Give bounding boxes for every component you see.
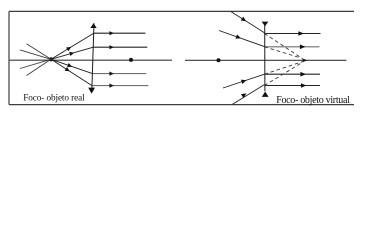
arrowhead on exit of ray 3 (through F, shallow from lower-left)	[109, 45, 113, 49]
wire ray 3 (through F, shallow from lower-left) diverging segment to lens	[51, 47, 93, 59]
arrowhead on incoming ray 4 (steep, from bottom border)	[241, 93, 247, 98]
wire incoming ray 2 (shallow upper)	[219, 31, 264, 47]
arrowhead on exit ray 4	[301, 83, 307, 88]
wire virtual ray 3 (dashed) to F	[264, 62, 302, 75]
wire exit ray 3 (parallel to axis, right diagram)	[264, 73, 320, 75]
wire incoming ray 1 (steep, from top border)	[231, 12, 264, 33]
focal point F' dot on axis (left diagram)	[129, 58, 133, 62]
lens L2 top arrowhead (pointing down/inward)	[262, 22, 269, 27]
point dot on axis (right diagram)	[217, 58, 221, 62]
wire incoming ray 4 (steep, from bottom border)	[233, 85, 265, 105]
svg-text:Foco- objeto real: Foco- objeto real	[23, 92, 85, 102]
wire ray 3 (through F, shallow from lower-left) exit segment (parallel to axis)	[93, 46, 147, 48]
arrowhead on exit of ray 4 (through F, steep from lower-left)	[109, 31, 113, 35]
lens L2 bottom arrowhead (pointing up/inward)	[262, 92, 269, 97]
arrowhead on exit ray 1	[298, 31, 304, 36]
lens L1 bottom arrowhead (down)	[88, 88, 95, 94]
wire ray 2 (through F, shallow from upper-left) diverging segment to lens	[51, 59, 92, 73]
wire ray 1 (through F, steep from upper-left) exit segment (parallel to axis)	[92, 85, 148, 87]
lens L1 top arrowhead (up)	[90, 23, 96, 28]
optical axis (right diagram)	[185, 59, 347, 61]
wire ray 2 (through F, shallow from upper-left) incoming segment	[20, 50, 51, 59]
arrowhead on incoming ray 2 (shallow upper)	[236, 35, 242, 39]
arrowhead on ray 3 (through F, shallow from lower-left)	[69, 52, 74, 56]
wire ray 4 (through F, steep from lower-left) diverging segment to lens	[51, 33, 94, 59]
wire virtual ray 1 (dashed) to F	[264, 34, 302, 59]
arrowhead on exit of ray 2 (through F, shallow from upper-left)	[109, 72, 113, 76]
arrowhead on exit of ray 1 (through F, steep from upper-left)	[109, 84, 113, 88]
focal point F (left diagram, ray crossing dot)	[49, 57, 53, 61]
wire ray 4 (through F, steep from lower-left) exit segment (parallel to axis)	[94, 32, 146, 34]
arrowhead on exit ray 2	[300, 45, 306, 50]
wire ray 3 (through F, shallow from lower-left) incoming segment	[20, 59, 51, 68]
diverging lens L2 (vertical line with inward arrows)	[264, 25, 266, 92]
virtual focus F arrowhead on axis (right diagram)	[303, 59, 308, 63]
wire exit ray 4 (parallel to axis, right diagram)	[264, 85, 320, 87]
converging lens L1 (vertical line with outward arrows)	[92, 23, 94, 88]
optical axis (left diagram)	[10, 59, 172, 61]
wire ray 4 (through F, steep from lower-left) incoming segment	[27, 59, 52, 75]
wire exit ray 2 (parallel to axis, right diagram)	[264, 46, 319, 48]
svg-text:Foco- objeto virtual: Foco- objeto virtual	[276, 95, 350, 106]
wire virtual ray 2 (dashed) to F	[264, 47, 301, 58]
arrowhead on ray 1 (through F, steep from upper-left)	[65, 67, 70, 71]
wire virtual ray 4 (dashed) to F	[264, 62, 303, 86]
arrowhead on incoming ray 1 (steep, from top border)	[241, 17, 247, 22]
wire ray 2 (through F, shallow from upper-left) exit segment (parallel to axis)	[92, 73, 146, 75]
wire incoming ray 3 (shallow lower)	[223, 74, 264, 88]
wire exit ray 1 (parallel to axis, right diagram)	[264, 33, 320, 35]
wire ray 1 (through F, steep from upper-left) diverging segment to lens	[51, 59, 92, 85]
wire ray 1 (through F, steep from upper-left) incoming segment	[27, 44, 52, 60]
arrowhead on exit ray 3	[300, 72, 306, 77]
arrowhead on incoming ray 3 (shallow lower)	[241, 80, 247, 84]
arrowhead on ray 2 (through F, shallow from upper-left)	[67, 63, 72, 67]
arrowhead on ray 4 (through F, steep from lower-left)	[66, 47, 71, 51]
